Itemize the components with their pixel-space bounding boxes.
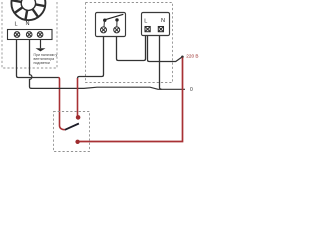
fan impeller M1 [11, 0, 45, 20]
svg-text:L: L [14, 22, 17, 28]
fan enclosure dashed box [2, 0, 57, 68]
wall switch bottom contact [75, 140, 79, 144]
wire S1 terminal1 to wall switch (dark part) [78, 37, 104, 79]
wire fan L to switch feed (dark part) [17, 40, 59, 78]
svg-text:N: N [161, 18, 165, 24]
wire continues red down to wall switch common [59, 78, 65, 130]
svg-text:220 В: 220 В [186, 53, 198, 58]
wall switch top contact [76, 115, 81, 120]
svg-text:L: L [144, 19, 147, 25]
svg-text:0: 0 [190, 87, 193, 93]
S1 terminal 2 [114, 27, 120, 33]
terminal 2 (N) [26, 32, 32, 38]
S1 contact dots and lever [103, 14, 123, 26]
wire fan N down with hop over phase wire [30, 40, 32, 89]
lamp terminal L [145, 27, 150, 32]
junction enclosure dashed box [86, 3, 173, 83]
wire lamp N to neutral bus [160, 36, 162, 90]
S1 terminal 1 [101, 27, 107, 33]
svg-text:подсветки: подсветки [34, 61, 50, 65]
note text [34, 53, 58, 65]
red feed to wall switch top contact [77, 78, 79, 116]
wall switch dashed box [54, 112, 90, 152]
supply node 220V [181, 56, 184, 59]
wire lamp L to 220V supply node [148, 36, 183, 62]
wire S1 terminal2 to lamp L [117, 36, 146, 61]
lamp box [142, 13, 170, 36]
light switch S1 box [96, 13, 126, 37]
terminal 1 (L) [14, 32, 20, 38]
indicator arrow under terminal 3 [36, 40, 46, 52]
wall switch lever [65, 124, 79, 130]
lamp terminal N [158, 27, 163, 32]
fan terminal strip [8, 30, 53, 40]
terminal 3 (T) [37, 32, 43, 38]
svg-text:N: N [25, 21, 29, 27]
neutral bus 0 [31, 87, 185, 89]
phase wire red: wall switch bottom contact to 220V node [79, 58, 183, 142]
